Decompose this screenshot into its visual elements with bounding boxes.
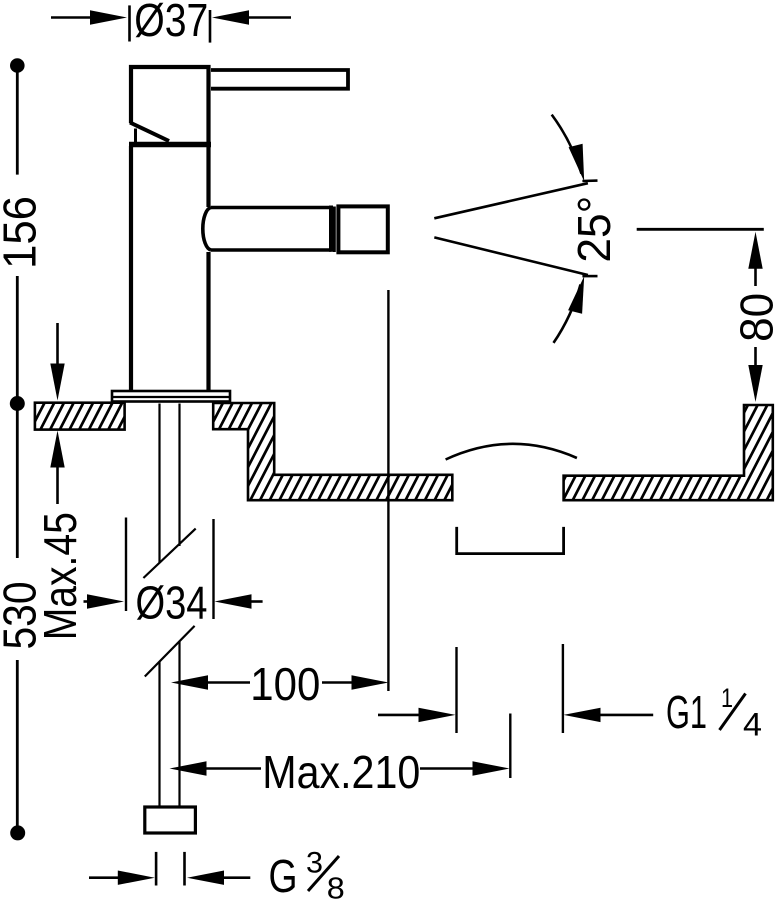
dimension G 3/8 bbox=[89, 847, 345, 900]
svg-text:156: 156 bbox=[0, 196, 46, 269]
dimension Max.45 bbox=[34, 323, 86, 640]
angle arc lower bbox=[554, 276, 585, 343]
body top line bbox=[129, 142, 211, 148]
handle lever bbox=[211, 70, 348, 89]
pipe break line upper bbox=[143, 529, 195, 578]
svg-text:8: 8 bbox=[327, 870, 345, 900]
svg-text:4: 4 bbox=[743, 706, 762, 742]
svg-text:Max.45: Max.45 bbox=[34, 512, 86, 640]
supply pipe right line upper bbox=[178, 404, 180, 547]
faucet cap bbox=[131, 67, 209, 144]
base flange bbox=[112, 391, 230, 402]
svg-text:100: 100 bbox=[250, 658, 320, 710]
dimension 530 bbox=[0, 404, 46, 841]
countertop left section bbox=[21, 403, 132, 430]
angle arc upper bbox=[552, 115, 585, 182]
drain size G1 1/4 bbox=[378, 644, 762, 742]
dimension 100 bbox=[171, 658, 389, 710]
supply pipe left line lower bbox=[158, 662, 160, 807]
svg-text:G: G bbox=[269, 850, 298, 900]
pipe break line lower bbox=[145, 626, 195, 677]
aerator bbox=[338, 206, 387, 252]
spout bbox=[203, 206, 335, 253]
svg-text:25°: 25° bbox=[568, 196, 620, 263]
faucet body right edge lower bbox=[206, 252, 210, 391]
dimension 156 bbox=[0, 58, 46, 411]
faucet body left edge bbox=[129, 146, 133, 391]
drain bracket bbox=[457, 527, 564, 554]
dimension 80 bbox=[637, 229, 775, 402]
supply pipe left line upper bbox=[158, 404, 160, 564]
dimension D37 bbox=[51, 0, 291, 46]
svg-text:Ø37: Ø37 bbox=[134, 0, 208, 46]
svg-text:Ø34: Ø34 bbox=[136, 577, 208, 629]
basin left step section bbox=[163, 403, 504, 500]
svg-text:1: 1 bbox=[721, 683, 733, 713]
svg-text:80: 80 bbox=[731, 293, 775, 342]
lever tilt diagonal bbox=[130, 123, 169, 143]
svg-text:3: 3 bbox=[306, 847, 323, 880]
basin right section bbox=[515, 405, 775, 500]
spout extension line bbox=[387, 290, 389, 691]
angle rays bbox=[434, 181, 597, 277]
supply pipe right line lower bbox=[178, 642, 180, 807]
supply end block bbox=[145, 807, 196, 833]
dimension D34 bbox=[84, 518, 263, 629]
faucet body right edge upper bbox=[206, 146, 210, 207]
dimension Max.210 bbox=[170, 714, 511, 799]
drain dome arc bbox=[446, 444, 577, 460]
svg-text:G1: G1 bbox=[666, 686, 707, 738]
svg-text:Max.210: Max.210 bbox=[262, 746, 420, 798]
